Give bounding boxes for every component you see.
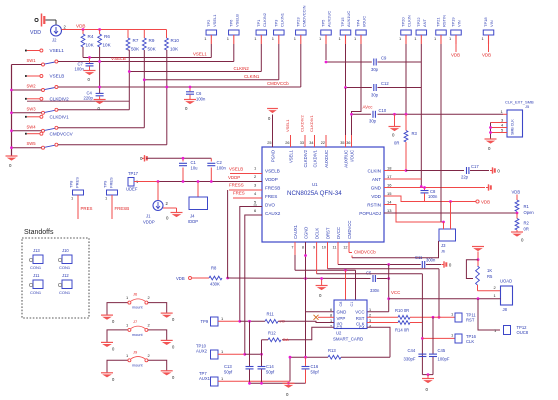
terminator gnd GND pin bbox=[486, 184, 491, 190]
wire J5 gnd column bbox=[490, 123, 492, 140]
wire pin36 stub bbox=[351, 135, 353, 147]
svg-text:TP18: TP18 bbox=[483, 17, 488, 27]
junction rail R6 bbox=[98, 28, 101, 31]
svg-text:33: 33 bbox=[300, 141, 304, 145]
svg-text:DCLK: DCLK bbox=[314, 228, 319, 239]
test point TP12 CLK bbox=[494, 325, 529, 335]
svg-text:DVO: DVO bbox=[265, 202, 275, 207]
wire J3 right pin bbox=[450, 202, 452, 230]
svg-text:FRESB: FRESB bbox=[265, 185, 280, 190]
junction VDB J3 bbox=[449, 200, 452, 203]
svg-text:AUX1: AUX1 bbox=[199, 376, 211, 381]
wire sw4 to bus bbox=[12, 130, 42, 132]
svg-text:C1: C1 bbox=[191, 160, 197, 165]
svg-text:CAUX2: CAUX2 bbox=[265, 211, 281, 216]
svg-text:10K: 10K bbox=[86, 43, 95, 48]
junction VSEL1 C7 bbox=[88, 56, 91, 59]
power jack J2 pin symbol bbox=[35, 14, 56, 27]
svg-text:FRES: FRES bbox=[109, 177, 114, 188]
svg-text:CLKDIV1: CLKDIV1 bbox=[309, 115, 314, 132]
svg-text:CLK_EXT_SMB: CLK_EXT_SMB bbox=[505, 100, 534, 105]
svg-text:C12: C12 bbox=[381, 81, 389, 86]
svg-text:VSEL1: VSEL1 bbox=[212, 14, 217, 27]
svg-text:CLKDIV2: CLKDIV2 bbox=[300, 115, 305, 132]
svg-text:CON1: CON1 bbox=[59, 265, 71, 270]
svg-text:SW5: SW5 bbox=[27, 141, 37, 146]
connector J5 CLK_EXT_SMB bbox=[505, 100, 534, 138]
wire sw2 to bus bbox=[12, 89, 42, 91]
svg-text:AUX1UC: AUX1UC bbox=[346, 11, 351, 27]
svg-text:SMART_CARD: SMART_CARD bbox=[333, 337, 363, 342]
wire CMDVCC pin12 bbox=[349, 242, 376, 258]
svg-text:VDD: VDD bbox=[371, 194, 381, 199]
IC U1 left pin names bbox=[254, 166, 281, 216]
svg-text:TP21: TP21 bbox=[436, 17, 441, 27]
test point TP9 DVO bbox=[201, 316, 240, 326]
ground C4 bbox=[94, 100, 106, 112]
svg-text:mount: mount bbox=[132, 363, 143, 367]
junction AUXD bbox=[325, 61, 328, 64]
svg-text:VDDP: VDDP bbox=[228, 175, 240, 180]
junction VCC y299 bbox=[387, 297, 390, 300]
svg-text:AUXDUC: AUXDUC bbox=[324, 150, 329, 168]
wire card C2 line bbox=[282, 327, 334, 340]
svg-text:R4: R4 bbox=[88, 34, 94, 39]
wire CAUX2 pin6 bbox=[245, 215, 262, 354]
junction gnd line a bbox=[248, 382, 263, 385]
resistor R13 bbox=[328, 348, 390, 359]
connector J8 UOAD bbox=[500, 279, 513, 313]
wire sw1 to bus bbox=[12, 64, 42, 66]
junction C8 top bbox=[423, 186, 426, 189]
resistor R10 10K bbox=[165, 30, 180, 52]
wire J5 pin4 bbox=[491, 123, 508, 128]
svg-text:8: 8 bbox=[330, 314, 332, 318]
svg-text:mount: mount bbox=[132, 333, 143, 337]
wire gnd drop bbox=[394, 114, 396, 126]
ground card caps bbox=[283, 383, 295, 397]
test point TP11 RST bbox=[451, 312, 476, 323]
junction C1 top bbox=[182, 157, 185, 160]
svg-text:VDB: VDB bbox=[176, 276, 185, 281]
svg-text:TP3: TP3 bbox=[273, 19, 278, 27]
junction TP10 AUX2 bbox=[243, 353, 246, 356]
junction GND pin8col bbox=[304, 277, 307, 280]
resistor R4 10K bbox=[81, 30, 95, 48]
test point TP10 AUX2 bbox=[196, 344, 245, 360]
connector J10 bbox=[58, 248, 72, 270]
terminator gnd C17 bbox=[490, 167, 500, 173]
ground R2 bbox=[511, 232, 524, 243]
svg-text:30p: 30p bbox=[371, 67, 379, 72]
connector J13 bbox=[29, 248, 43, 270]
svg-text:TP17: TP17 bbox=[128, 171, 139, 176]
svg-text:50pf: 50pf bbox=[311, 370, 320, 375]
wire TP22 ANT column bbox=[420, 60, 422, 187]
svg-text:GND: GND bbox=[371, 185, 382, 190]
svg-text:UDEF: UDEF bbox=[126, 187, 138, 192]
resistor R7 50K bbox=[126, 30, 140, 52]
net AUXD y60 bbox=[326, 61, 372, 63]
junction J5 pins bbox=[489, 126, 492, 134]
svg-text:VDB: VDB bbox=[451, 53, 460, 58]
svg-text:C17: C17 bbox=[471, 164, 479, 169]
svg-text:TP9: TP9 bbox=[103, 180, 108, 188]
junction CLKIN gnd drop bbox=[393, 113, 396, 116]
test point TP4 IOUC bbox=[354, 16, 367, 110]
svg-text:R10: R10 bbox=[171, 38, 180, 43]
svg-text:CLKIN: CLKIN bbox=[407, 15, 412, 27]
junction CGND a bbox=[304, 254, 307, 257]
ground C44C45 bbox=[422, 375, 434, 392]
svg-text:TP19: TP19 bbox=[451, 17, 456, 27]
svg-text:TP4: TP4 bbox=[356, 19, 361, 27]
svg-text:AUX2: AUX2 bbox=[196, 349, 208, 354]
terminator gnd C11 bbox=[442, 261, 452, 267]
svg-text:AUXRUC: AUXRUC bbox=[343, 150, 348, 168]
svg-text:R5: R5 bbox=[487, 274, 493, 279]
svg-text:35: 35 bbox=[340, 141, 344, 145]
potentiometer RV1 1K bbox=[476, 260, 493, 291]
test point TP9L FRESB bbox=[103, 177, 130, 219]
wire card C4 line bbox=[367, 327, 390, 357]
svg-text:RSTIN: RSTIN bbox=[367, 202, 381, 207]
capacitor C16 50pf bbox=[302, 357, 320, 383]
net CLKIN2 bbox=[129, 66, 261, 72]
svg-text:UOAD: UOAD bbox=[500, 279, 512, 284]
test point TP23 CMDVCCIN bbox=[294, 5, 307, 87]
svg-text:C1: C1 bbox=[350, 302, 354, 307]
test point TP22 ANT bbox=[414, 17, 427, 60]
test point TP8 PRES bbox=[69, 177, 93, 219]
svg-text:0R: 0R bbox=[394, 141, 399, 146]
svg-text:50pf: 50pf bbox=[266, 370, 275, 375]
svg-text:SW2: SW2 bbox=[27, 84, 37, 89]
capacitor C44 330pF bbox=[404, 348, 427, 362]
jumper W5 bbox=[101, 292, 175, 325]
svg-text:FRESB: FRESB bbox=[115, 206, 130, 211]
wire pin35 stub bbox=[345, 135, 347, 147]
svg-text:100n: 100n bbox=[75, 67, 85, 72]
junction CLKIN TP20 bbox=[405, 113, 408, 116]
net FRESB pin3 bbox=[229, 183, 262, 191]
svg-text:RSTIN: RSTIN bbox=[442, 15, 447, 27]
svg-text:26: 26 bbox=[285, 141, 289, 145]
svg-text:VCC: VCC bbox=[391, 290, 400, 295]
test point TP3 CLKIN1 bbox=[272, 12, 285, 80]
svg-text:VDDP: VDDP bbox=[143, 220, 155, 225]
svg-text:CLKIN: CLKIN bbox=[367, 168, 381, 173]
junction VSELB R6 bbox=[98, 60, 101, 63]
test point TP16 CLK bbox=[451, 333, 477, 345]
svg-text:CLKDIV2: CLKDIV2 bbox=[50, 96, 70, 101]
svg-text:330n: 330n bbox=[370, 288, 380, 293]
wire pin33 stub bbox=[300, 115, 306, 147]
wire caps ground line bbox=[250, 382, 306, 384]
svg-text:I/OUC: I/OUC bbox=[349, 150, 354, 162]
svg-text:C45: C45 bbox=[438, 348, 446, 353]
capacitor C13 50pf bbox=[224, 364, 254, 383]
svg-text:TP23: TP23 bbox=[295, 17, 300, 27]
wire VDD rail bbox=[62, 24, 167, 30]
junction bus sw2 bbox=[10, 89, 13, 92]
test point TP1 CLKIN2 bbox=[254, 12, 266, 71]
svg-text:FRES: FRES bbox=[265, 194, 277, 199]
ground C7 bbox=[84, 71, 96, 83]
svg-text:50K: 50K bbox=[131, 47, 140, 52]
wire RSTIN pin14 bbox=[384, 205, 444, 223]
wire AUX2 net bbox=[245, 353, 262, 355]
svg-text:VSEL1: VSEL1 bbox=[285, 119, 290, 132]
svg-text:U2: U2 bbox=[336, 331, 342, 336]
test point TP5 AUXDUC bbox=[319, 11, 332, 60]
junction C6 top bbox=[189, 86, 192, 89]
junction TP9 DVO bbox=[238, 320, 241, 323]
svg-text:C10: C10 bbox=[379, 108, 387, 113]
junction bus sw5 bbox=[10, 146, 13, 149]
svg-text:TP1: TP1 bbox=[256, 19, 261, 27]
junction DVCC VCCcol bbox=[387, 263, 390, 266]
junction CMDVCC R10col bbox=[165, 86, 168, 89]
connector J3 bbox=[439, 229, 456, 254]
svg-text:CLKIN1: CLKIN1 bbox=[244, 74, 260, 79]
wire VCC column bbox=[389, 265, 401, 312]
svg-text:CLKDIV1: CLKDIV1 bbox=[312, 149, 317, 167]
ground mid bbox=[316, 279, 328, 299]
test point TP18 VDD bbox=[482, 17, 495, 58]
capacitor C1 10u bbox=[179, 158, 198, 181]
wire J5 pin1 bbox=[501, 109, 508, 114]
junction CMDVCC R6col bbox=[98, 86, 101, 89]
wire sw3 to bus bbox=[12, 112, 42, 114]
junction AUXR bbox=[344, 86, 347, 89]
svg-text:C44: C44 bbox=[408, 348, 416, 353]
wire card VPP nc bbox=[314, 315, 335, 320]
svg-text:ANT: ANT bbox=[422, 18, 427, 27]
wire pin34 stub bbox=[309, 115, 315, 147]
IC U2 pin names bbox=[337, 302, 366, 331]
capacitor C11 300n bbox=[415, 255, 441, 268]
wire J5 pin3 bbox=[491, 118, 508, 123]
standoffs box bbox=[22, 229, 89, 318]
switch SW2 VSELB bbox=[25, 74, 64, 92]
svg-text:J13: J13 bbox=[33, 248, 40, 253]
junction TP21 J3 bbox=[442, 221, 445, 224]
net VSEL1 bbox=[83, 52, 211, 58]
svg-text:AUX2UC: AUX2UC bbox=[327, 11, 332, 27]
svg-text:J12: J12 bbox=[62, 273, 69, 278]
svg-text:30p: 30p bbox=[371, 93, 379, 98]
svg-text:mount: mount bbox=[132, 306, 143, 310]
svg-text:C13: C13 bbox=[224, 364, 232, 369]
svg-text:TP9: TP9 bbox=[201, 319, 209, 324]
ground J1 bbox=[166, 213, 183, 221]
svg-text:300n: 300n bbox=[426, 258, 436, 263]
junction bus sw3 bbox=[10, 111, 13, 114]
ground C6 bbox=[184, 100, 196, 112]
wire left bus bbox=[11, 65, 13, 157]
wire CLK column bbox=[421, 274, 423, 375]
wire VCC to card bbox=[367, 311, 389, 313]
resistor R9 50K bbox=[142, 30, 156, 52]
wire CGND to card bbox=[306, 311, 335, 313]
wire R9 column bbox=[143, 50, 145, 128]
connector J12 bbox=[58, 273, 72, 295]
svg-text:1: 1 bbox=[369, 308, 371, 312]
junction DRST RST line bbox=[438, 316, 441, 319]
svg-text:R1: R1 bbox=[524, 204, 530, 209]
wire DVO pin5 bbox=[240, 205, 262, 321]
capacitor C9 30p bbox=[371, 56, 421, 73]
wire R4 to VSEL1 net bbox=[82, 47, 84, 58]
switch SW5 CMDVCCV bbox=[25, 131, 74, 149]
net CMDVCCIN bbox=[58, 81, 301, 87]
resistor R12 bbox=[262, 331, 289, 343]
svg-text:CMDVCC: CMDVCC bbox=[347, 221, 352, 239]
jumper W6 bbox=[101, 319, 175, 352]
wire CLKIN pin18 bbox=[384, 170, 406, 172]
svg-text:R13: R13 bbox=[328, 348, 336, 353]
svg-text:R14 0R: R14 0R bbox=[395, 328, 409, 333]
net AVCC CLKIN line bbox=[352, 105, 504, 115]
svg-text:C2: C2 bbox=[337, 325, 343, 330]
junction C16 top bbox=[304, 356, 307, 359]
svg-text:U1: U1 bbox=[312, 182, 318, 187]
test point TP17 VDDP bbox=[126, 171, 158, 192]
wire card top pin1 bbox=[345, 270, 347, 300]
IC U1 bottom pin names bbox=[291, 221, 351, 250]
junction J8 TP12col bbox=[477, 297, 480, 300]
capacitor C7 100n bbox=[75, 58, 94, 72]
svg-text:36: 36 bbox=[346, 141, 350, 145]
svg-text:C2: C2 bbox=[217, 160, 223, 165]
ground CLKIN net bbox=[389, 127, 401, 138]
svg-text:VSELB: VSELB bbox=[229, 167, 243, 172]
svg-text:C4: C4 bbox=[359, 325, 365, 330]
switch SW1 VSEL1 bbox=[25, 48, 64, 66]
svg-text:PRES: PRES bbox=[75, 177, 80, 188]
junction C1 bottom bbox=[182, 180, 185, 183]
ground J5 bbox=[485, 139, 497, 151]
junction TP17 J1 bbox=[157, 180, 160, 183]
svg-text:CGND: CGND bbox=[303, 227, 308, 239]
svg-text:VDB: VDB bbox=[76, 24, 85, 29]
svg-text:430K: 430K bbox=[210, 282, 220, 287]
node VDB circle bbox=[476, 200, 490, 205]
wire AUX1 riser bbox=[289, 357, 291, 381]
svg-text:100n: 100n bbox=[217, 166, 227, 171]
IC U1 top pin names bbox=[267, 141, 354, 168]
svg-text:10K: 10K bbox=[103, 43, 112, 48]
svg-text:R6: R6 bbox=[104, 34, 110, 39]
ground PGND bbox=[267, 109, 278, 122]
svg-text:C5: C5 bbox=[366, 271, 372, 276]
capacitor C6 100n bbox=[186, 87, 206, 102]
net CMDVCCV row bbox=[58, 144, 167, 146]
wire J1 to VDDP net bbox=[157, 182, 159, 201]
svg-text:CAUX1: CAUX1 bbox=[293, 224, 298, 239]
junction GND ANT col bbox=[420, 185, 423, 188]
svg-text:100pF: 100pF bbox=[438, 357, 450, 362]
svg-text:CLKIN2: CLKIN2 bbox=[262, 12, 267, 27]
wire POPUADJ pin13 bbox=[384, 212, 517, 214]
wire sw5 to bus bbox=[12, 147, 42, 149]
svg-text:OUC8: OUC8 bbox=[517, 330, 529, 335]
wire R2 gnd bbox=[516, 230, 518, 232]
wire R12 column bbox=[261, 340, 263, 355]
svg-text:TP5: TP5 bbox=[321, 19, 326, 27]
junction AUX2 R12col bbox=[260, 353, 263, 356]
wire DVCC pin11 bbox=[338, 242, 421, 265]
svg-text:R7: R7 bbox=[133, 38, 139, 43]
wire DVO net bbox=[240, 320, 265, 322]
svg-text:TP20: TP20 bbox=[401, 17, 406, 27]
jumper J4 IDDP bbox=[188, 182, 208, 225]
resistor R8 430K bbox=[176, 266, 222, 287]
resistor R2 0R bbox=[515, 213, 529, 232]
wire J3 left pin bbox=[443, 222, 445, 229]
wire VDD pin15 jog bbox=[384, 196, 476, 202]
junction CLKIN2 R7 bbox=[128, 70, 131, 73]
net FRES pin4 bbox=[233, 191, 262, 199]
svg-text:I/OUC: I/OUC bbox=[362, 16, 367, 27]
svg-text:TP22: TP22 bbox=[416, 17, 421, 27]
svg-text:CLKIN2: CLKIN2 bbox=[234, 66, 250, 71]
junction pot top bbox=[477, 258, 480, 261]
svg-text:34: 34 bbox=[309, 141, 313, 145]
svg-text:10K: 10K bbox=[170, 47, 179, 52]
svg-text:PRES: PRES bbox=[81, 206, 93, 211]
wire TP4 column jog bbox=[352, 110, 362, 135]
svg-text:16: 16 bbox=[387, 183, 392, 188]
wire TP12 column bbox=[478, 299, 500, 330]
svg-text:R11: R11 bbox=[267, 312, 275, 317]
svg-text:CMDVCCb: CMDVCCb bbox=[354, 250, 376, 255]
voltage source VDD (J2) bbox=[30, 25, 67, 43]
ground pot bbox=[472, 247, 484, 260]
svg-text:30p: 30p bbox=[369, 119, 377, 124]
junction R8 right bbox=[226, 277, 229, 280]
capacitor C12 30p bbox=[371, 81, 421, 98]
junction CLK TP16 bbox=[421, 337, 424, 340]
wire J1 pin2 gnd bbox=[163, 208, 177, 213]
svg-text:J2: J2 bbox=[52, 38, 57, 43]
junction CLKIN pin18 bbox=[405, 169, 408, 172]
svg-text:J10: J10 bbox=[62, 248, 69, 253]
junction CAUX1 card bbox=[344, 269, 347, 272]
svg-text:15: 15 bbox=[387, 191, 392, 196]
test point TP19 VDB bbox=[449, 17, 462, 58]
net CLKDIV2 top contact bbox=[27, 100, 129, 102]
svg-text:TP8: TP8 bbox=[69, 180, 74, 188]
svg-text:R12: R12 bbox=[268, 331, 276, 336]
wire TP16 line bbox=[422, 337, 455, 339]
wire C12 column bbox=[249, 321, 251, 366]
svg-text:VSELB: VSELB bbox=[234, 14, 239, 27]
svg-text:TP15: TP15 bbox=[340, 17, 345, 27]
svg-text:VSELB: VSELB bbox=[265, 168, 280, 173]
junction C2 bottom bbox=[210, 180, 213, 183]
wire DRST pin10 bbox=[328, 242, 440, 317]
junction AUX1 riser bbox=[289, 356, 292, 359]
svg-text:VDB: VDB bbox=[481, 200, 490, 205]
svg-text:J4: J4 bbox=[190, 214, 195, 219]
svg-text:VDB: VDB bbox=[482, 53, 491, 58]
svg-text:Standoffs: Standoffs bbox=[24, 229, 54, 236]
resistor R14 0R bbox=[395, 321, 422, 333]
wire card CLK line bbox=[367, 322, 398, 324]
junction CLKIN1 R9 bbox=[143, 78, 146, 81]
